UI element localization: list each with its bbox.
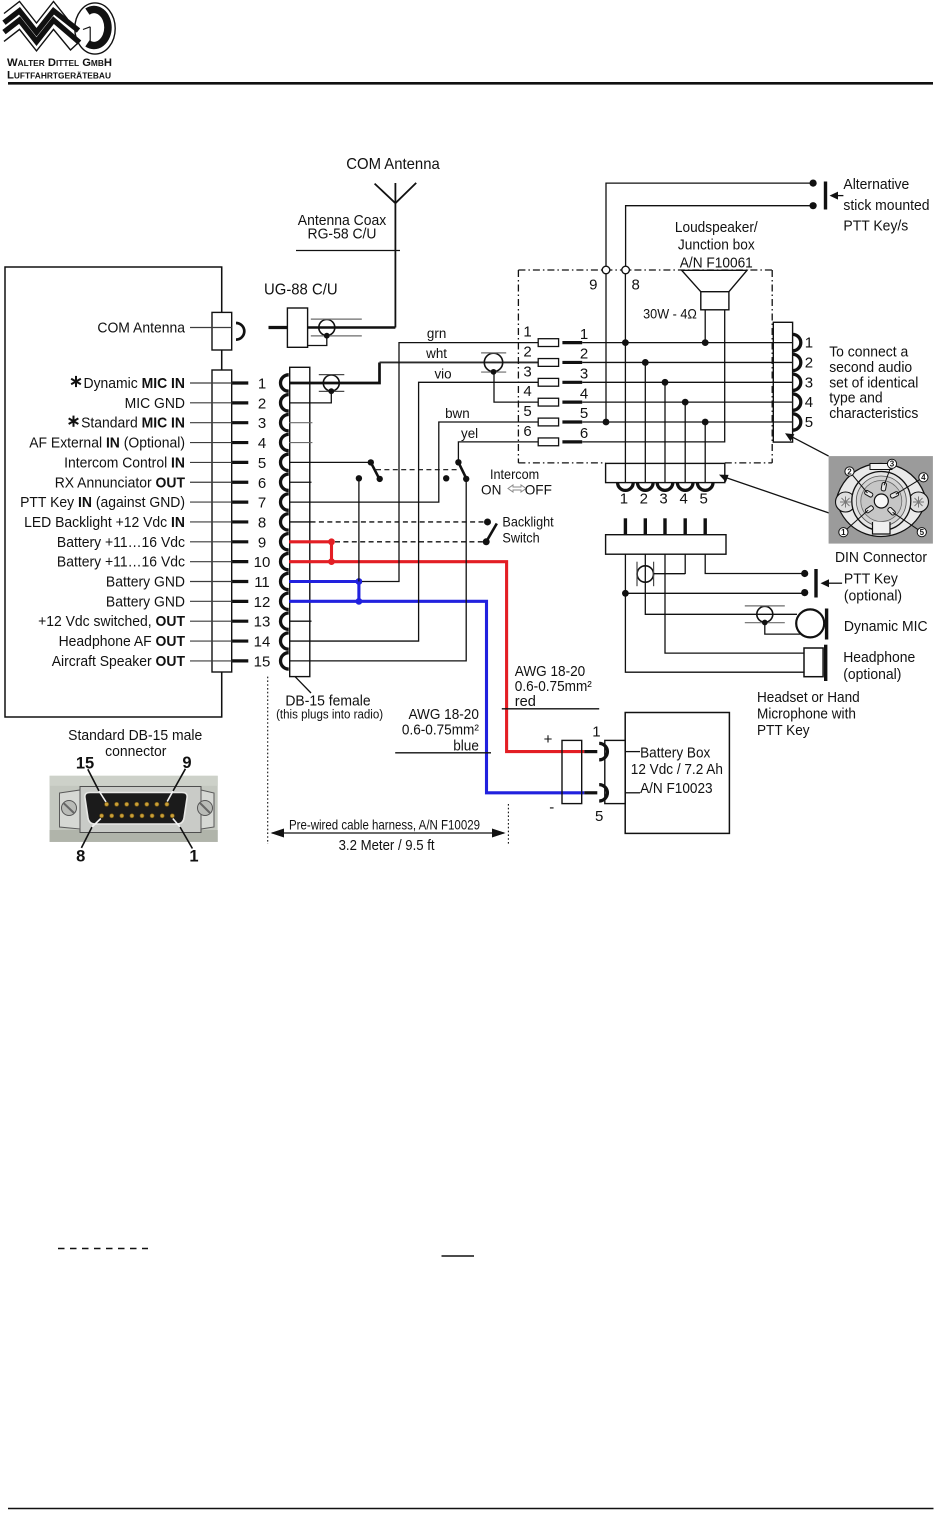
junction box left edge: [517, 270, 519, 463]
pin 2 stub (radio): [232, 401, 248, 404]
wire pin12 blue to battery -: [289, 601, 584, 792]
intercom switch A contact top: [368, 459, 374, 465]
bottom connector contact 4: [677, 483, 693, 491]
wire mic plug shield: [765, 623, 800, 635]
svg-text:4: 4: [580, 385, 588, 402]
svg-text:Alternative: Alternative: [843, 176, 909, 193]
pin 9 stub (radio): [232, 540, 248, 543]
svg-text:Backlight: Backlight: [502, 514, 553, 529]
svg-text:12 Vdc / 7.2 Ah: 12 Vdc / 7.2 Ah: [631, 762, 723, 778]
svg-text:vio: vio: [434, 367, 451, 382]
svg-text:4: 4: [258, 435, 266, 452]
wire pin8 solid stub: [289, 521, 311, 523]
bottom connector contact 5: [697, 483, 713, 491]
svg-text:30W - 4Ω: 30W - 4Ω: [643, 307, 697, 322]
svg-text:Luftfahrtgerätebau: Luftfahrtgerätebau: [7, 70, 111, 82]
wire UG-88 through to antenna: [308, 326, 396, 328]
svg-text:8: 8: [258, 514, 266, 531]
pin 10 stub (radio): [232, 560, 248, 563]
stick PTT key bar: [824, 182, 827, 210]
backlight switch contact bottom: [483, 538, 490, 545]
pointer DIN to second audio: [789, 435, 829, 456]
loudspeaker cone: [682, 270, 747, 291]
second audio contact 3: [793, 374, 801, 390]
bottom connector contact 1: [618, 483, 634, 491]
svg-text:UG-88 C/U: UG-88 C/U: [264, 282, 338, 299]
svg-text:+: +: [544, 731, 553, 748]
svg-text:1: 1: [523, 324, 531, 341]
headset plug pin 4: [684, 518, 687, 534]
headset jack symbol on wht wire: [481, 353, 506, 375]
svg-text:1: 1: [841, 528, 846, 537]
svg-text:6: 6: [580, 425, 588, 442]
wire pin9 red: [289, 540, 332, 543]
wire radio connector to box bottom: [221, 672, 223, 717]
junction box bottom connector body: [606, 463, 725, 482]
svg-text:+12 Vdc switched, OUT: +12 Vdc switched, OUT: [38, 613, 185, 630]
battery contact 1: [599, 743, 607, 759]
wire row1 across junction box: [582, 342, 792, 344]
wire pin 13 label leader: [190, 620, 232, 622]
headphone body: [804, 648, 823, 677]
svg-text:-: -: [549, 799, 554, 816]
DB-15 female contact 14: [280, 633, 288, 649]
svg-text:RX Annunciator OUT: RX Annunciator OUT: [55, 474, 185, 491]
junction dot blue pin11: [356, 578, 363, 585]
harness arrowhead left: [271, 829, 285, 838]
terminal 1 body: [538, 339, 558, 347]
wire wht to terminal 2: [380, 361, 539, 363]
stick PTT arrow: [837, 195, 843, 197]
logo Walter Dittel WD mark: [4, 2, 115, 55]
wire row5 across junction box: [582, 421, 792, 423]
DB-15 female contact 1: [280, 375, 288, 391]
intercom switch B lever dot: [463, 476, 469, 482]
antenna arm right: [395, 183, 416, 203]
intercom switch B contact left: [443, 475, 449, 481]
wire row3 down to connector pin3: [664, 382, 666, 482]
DB-15 female contact 13: [280, 613, 288, 629]
svg-text:Battery Box: Battery Box: [640, 746, 711, 762]
radio DB-15 shell: [212, 370, 232, 672]
wire pin5 to intercom switch: [289, 461, 371, 463]
svg-text:grn: grn: [427, 326, 446, 341]
harness dimension line: [272, 832, 504, 834]
svg-text:Battery GND: Battery GND: [106, 593, 185, 610]
DB-15 female contact 7: [281, 494, 289, 510]
intercom switch A lever: [371, 462, 379, 477]
svg-text:MIC GND: MIC GND: [125, 395, 186, 412]
wire loudspeaker left terminal: [704, 310, 706, 343]
svg-text:9: 9: [182, 754, 191, 772]
DB-15 female contact 4: [281, 434, 289, 450]
pin 14 stub (radio): [232, 639, 248, 642]
junction dot row4: [682, 399, 689, 406]
radio COM jack body: [212, 312, 232, 350]
terminal 6 body: [538, 438, 558, 446]
intercom switch A contact left: [356, 475, 362, 481]
battery plug body: [562, 740, 582, 803]
svg-text:COM Antenna: COM Antenna: [97, 319, 185, 336]
svg-text:ON: ON: [481, 482, 501, 497]
svg-text:3.2 Meter / 9.5 ft: 3.2 Meter / 9.5 ft: [339, 838, 435, 854]
svg-text:3: 3: [890, 460, 895, 469]
wire plug pin4 down: [684, 554, 686, 574]
wire pin 15 label leader: [190, 660, 232, 662]
wire COM Antenna label to jack: [190, 327, 232, 329]
pin 4 stub (radio): [232, 441, 248, 444]
wire plug pin1 to headphone lower: [625, 593, 804, 672]
harness dotted extent left: [267, 677, 269, 844]
DB-15 female contact 2: [281, 395, 289, 411]
second audio connector body: [773, 322, 792, 442]
terminal 5 body: [538, 418, 558, 426]
svg-text:0.6-0.75mm²: 0.6-0.75mm²: [515, 679, 592, 695]
wire intercom A to battery GND: [358, 478, 360, 581]
wire pin 12 label leader: [190, 600, 232, 602]
svg-text:characteristics: characteristics: [829, 405, 918, 422]
wire COM jack to DB15 shell: [221, 350, 223, 370]
svg-text:3: 3: [523, 363, 531, 380]
label pin 3 Standard MIC IN: [69, 416, 79, 427]
svg-text:10: 10: [254, 554, 271, 571]
svg-text:stick mounted: stick mounted: [843, 197, 929, 214]
junction dot plug pin1: [622, 590, 629, 597]
svg-text:3: 3: [258, 415, 266, 432]
junction box right edge: [771, 270, 773, 463]
svg-text:1: 1: [258, 376, 266, 393]
wire UG-88 shield tap: [308, 336, 327, 346]
pin 6 stub (radio): [232, 481, 248, 484]
svg-text:LED Backlight +12 Vdc IN: LED Backlight +12 Vdc IN: [24, 514, 185, 531]
pin13 stub wire: [289, 620, 312, 622]
DB-15 female contact 9: [280, 534, 288, 550]
wire pin 11 label leader: [190, 581, 232, 583]
svg-text:1: 1: [592, 724, 600, 741]
wire pin 5 label leader: [190, 461, 232, 463]
junction dot red pin10: [328, 558, 335, 565]
battery box: [625, 713, 729, 834]
svg-text:(optional): (optional): [844, 587, 902, 604]
pin4 stub wire: [289, 442, 312, 444]
svg-text:4: 4: [523, 383, 531, 400]
svg-text:1: 1: [189, 847, 198, 865]
intercom mechanical link dashed: [376, 469, 459, 471]
battery contact 5: [599, 785, 607, 801]
pin 11 stub (radio): [232, 580, 248, 583]
junction dot red pin9: [328, 538, 335, 545]
terminal 3 pin stub: [562, 381, 582, 384]
junction dot row5 x9: [603, 419, 610, 426]
terminal 2 body: [538, 359, 558, 367]
svg-text:AWG 18-20: AWG 18-20: [515, 664, 585, 680]
svg-text:8: 8: [632, 277, 640, 294]
svg-text:wht: wht: [425, 346, 447, 361]
bottom connector contact 3: [657, 483, 673, 491]
junction dot blue pin12: [356, 598, 363, 605]
svg-text:Walter Dittel GmbH: Walter Dittel GmbH: [7, 57, 112, 69]
svg-text:DIN Connector: DIN Connector: [835, 550, 927, 566]
svg-text:9: 9: [258, 534, 266, 551]
dynamic mic bar: [825, 609, 828, 640]
DB-15 female contact 11: [280, 573, 288, 589]
svg-text:PTT Key: PTT Key: [844, 571, 898, 588]
second audio contact 5: [793, 414, 801, 430]
pin 5 stub (radio): [232, 461, 248, 464]
svg-text:OFF: OFF: [525, 482, 552, 497]
battery blue stub: [584, 791, 597, 794]
junction box bottom edge left: [518, 462, 605, 464]
DB-15 female contact 15: [281, 653, 289, 669]
battery red stub: [584, 750, 597, 753]
wire pin11 blue: [289, 580, 359, 583]
dynamic mic circle: [796, 609, 824, 637]
svg-text:(optional): (optional): [843, 666, 901, 683]
svg-text:6: 6: [258, 475, 266, 492]
PTT key contact dot upper: [801, 570, 808, 577]
second audio contact 1: [793, 334, 801, 350]
wire pin 7 label leader: [190, 501, 232, 503]
wire pin 3 label leader: [190, 422, 232, 424]
svg-text:Headphone AF OUT: Headphone AF OUT: [59, 633, 185, 650]
svg-text:A/N F10023: A/N F10023: [640, 781, 713, 797]
svg-text:7: 7: [258, 495, 266, 512]
mic plug symbol: [745, 606, 785, 625]
PTT key bar: [814, 569, 817, 598]
svg-text:5: 5: [700, 491, 708, 508]
terminal 4 pin stub: [562, 401, 582, 404]
junction box bottom edge right: [725, 462, 772, 464]
svg-text:1: 1: [580, 326, 588, 343]
AWG red underline: [502, 708, 599, 710]
svg-text:2: 2: [580, 346, 588, 363]
DB-15 female contact 3: [281, 415, 289, 431]
wire row4 down to connector pin4: [684, 402, 686, 482]
wire plug pin2 to dynamic mic: [645, 554, 797, 614]
svg-text:RG-58 C/U: RG-58 C/U: [308, 226, 377, 243]
svg-text:5: 5: [258, 455, 266, 472]
wire coax stub into UG-88: [269, 326, 288, 329]
svg-text:5: 5: [920, 528, 925, 537]
loudspeaker driver: [701, 292, 729, 310]
junction box entry circle 9: [602, 266, 610, 274]
svg-text:2: 2: [805, 354, 813, 371]
PTT key contact dot lower: [801, 589, 808, 596]
wire pin 14 label leader: [190, 640, 232, 642]
svg-text:Switch: Switch: [502, 530, 539, 545]
wire pin 4 label leader: [190, 442, 232, 444]
wire row2 down to connector pin2: [644, 362, 646, 482]
wire stick PTT 8: [626, 206, 814, 267]
antenna mast: [394, 183, 396, 328]
mic jack symbol vertical: [637, 566, 653, 582]
svg-text:Dynamic MIC: Dynamic MIC: [844, 618, 928, 635]
pin 7 stub (radio): [232, 501, 248, 504]
terminal 4 body: [538, 398, 558, 406]
svg-text:4: 4: [805, 394, 813, 411]
header rule: [8, 82, 933, 85]
wire pin10 red to battery +: [289, 562, 584, 752]
svg-text:15: 15: [76, 755, 94, 773]
wire pin 9 label leader: [190, 541, 232, 543]
wire pin 1 label leader: [190, 382, 232, 384]
svg-text:5: 5: [580, 405, 588, 422]
PTT key arrow: [828, 582, 842, 584]
junction box top edge: [518, 269, 772, 271]
stick PTT contact dot upper: [810, 180, 817, 187]
harness dotted extent right: [507, 804, 509, 845]
svg-text:2: 2: [258, 395, 266, 412]
DB-15 female shell: [290, 367, 310, 676]
AWG blue underline: [395, 752, 491, 754]
footer rule: [8, 1508, 934, 1510]
svg-text:Pre-wired cable harness, A/N F: Pre-wired cable harness, A/N F10029: [289, 818, 480, 833]
leader line under RG-58 label: [296, 250, 400, 252]
svg-text:Headphone: Headphone: [843, 649, 915, 666]
leader to DB-15 female label: [295, 677, 311, 693]
label pin 1 Dynamic MIC IN: [71, 376, 81, 387]
pin 12 stub (radio): [232, 600, 248, 603]
wire plug pin5 to PTT upper: [705, 554, 805, 573]
svg-text:1: 1: [620, 491, 628, 508]
wire yel riser to switch B: [458, 442, 538, 462]
svg-text:3: 3: [659, 491, 667, 508]
headset plug pin 2: [644, 518, 647, 534]
legend dashed sample: [58, 1248, 148, 1250]
wire pin 6 label leader: [190, 481, 232, 483]
wire pin14 to vio riser to row3: [289, 382, 538, 641]
svg-text:6: 6: [523, 423, 531, 440]
svg-text:A/N F10061: A/N F10061: [680, 255, 753, 271]
pin 15 stub (radio): [232, 659, 248, 662]
wire pin 8 label leader: [190, 521, 232, 523]
svg-text:PTT Key: PTT Key: [757, 723, 810, 739]
wire mic jack shield to plug pin4: [654, 573, 686, 575]
intercom switch B lever: [458, 462, 466, 478]
junction dot row1 speaker: [702, 339, 709, 346]
pin 8 stub (radio): [232, 520, 248, 523]
svg-text:Battery +11…16 Vdc: Battery +11…16 Vdc: [57, 554, 186, 571]
backlight switch lever: [486, 524, 497, 542]
wire row6 to loudspeaker: [582, 310, 725, 442]
wire 8 down to connector pin1: [624, 274, 626, 483]
UG-88 coax jack symbol: [311, 319, 362, 339]
terminal 5 pin stub: [562, 420, 582, 423]
wire plug pin1 to PTT lower: [625, 554, 804, 593]
svg-text:1: 1: [805, 335, 813, 352]
intercom switch B contact top: [455, 459, 461, 465]
intercom switch A lever dot: [377, 476, 383, 482]
wire red tie 9-10: [330, 542, 333, 562]
DB-15 female contact 5: [281, 454, 289, 470]
wire 9 down to row5: [605, 274, 607, 422]
wire pin7 to bwn to row5: [289, 422, 538, 502]
DIN connector illustration: [829, 456, 933, 543]
svg-text:Microphone with: Microphone with: [757, 706, 856, 722]
svg-text:5: 5: [805, 414, 813, 431]
svg-text:Dynamic MIC IN: Dynamic MIC IN: [84, 375, 186, 392]
headset plug body: [606, 535, 726, 555]
legend solid sample: [442, 1255, 475, 1257]
pin 3 stub (radio): [232, 421, 248, 424]
wire row2 across junction box: [582, 361, 792, 363]
terminal 1 pin stub: [562, 341, 582, 344]
wire pin15 to intercom switch: [289, 479, 466, 661]
backlight switch contact top: [484, 518, 491, 525]
svg-text:AF External IN (Optional): AF External IN (Optional): [29, 435, 185, 452]
second audio contact 4: [793, 394, 801, 410]
radio outline box: [5, 267, 222, 717]
svg-text:2: 2: [640, 491, 648, 508]
junction box entry circle 8: [622, 266, 630, 274]
svg-text:Aircraft Speaker OUT: Aircraft Speaker OUT: [52, 653, 185, 670]
wire pin1 Dynamic MIC bold: [289, 362, 380, 383]
svg-text:12: 12: [254, 594, 271, 611]
svg-text:PTT Key IN (against GND): PTT Key IN (against GND): [20, 494, 185, 511]
wire pin8 dashed to backlight switch: [311, 521, 488, 523]
wire radio top edge to COM jack: [221, 267, 223, 312]
terminal 2 pin stub: [562, 361, 582, 364]
svg-text:yel: yel: [461, 426, 478, 441]
battery side block: [605, 740, 625, 803]
svg-text:Standard MIC IN: Standard MIC IN: [81, 415, 185, 432]
svg-text:3: 3: [580, 366, 588, 383]
svg-text:bwn: bwn: [445, 406, 470, 421]
svg-text:2: 2: [523, 343, 531, 360]
junction dot row2: [642, 359, 649, 366]
wire row3 across junction box: [582, 381, 792, 383]
svg-text:0.6-0.75mm²: 0.6-0.75mm²: [402, 722, 479, 738]
svg-text:14: 14: [254, 634, 271, 651]
svg-text:Battery GND: Battery GND: [106, 574, 185, 591]
wire wht jack shield to row4: [494, 371, 538, 403]
wire pin 10 label leader: [190, 561, 232, 563]
second audio contact 2: [793, 354, 801, 370]
svg-text:13: 13: [254, 614, 271, 631]
svg-text:Standard DB-15 male: Standard DB-15 male: [68, 727, 202, 744]
svg-text:3: 3: [805, 374, 813, 391]
svg-text:11: 11: [254, 574, 270, 591]
svg-text:connector: connector: [105, 743, 166, 760]
pin6 stub wire: [289, 481, 312, 483]
wire mic jack shield to pin2: [289, 391, 331, 403]
harness arrowhead right: [492, 829, 506, 838]
junction dot row5 speaker: [702, 419, 709, 426]
svg-text:Intercom: Intercom: [490, 467, 539, 482]
pin 13 stub (radio): [232, 620, 248, 623]
wire pin9 dashed to backlight switch: [335, 541, 486, 543]
radio COM jack female contact: [236, 323, 244, 340]
svg-text:Loudspeaker/: Loudspeaker/: [675, 220, 759, 236]
svg-text:Battery +11…16 Vdc: Battery +11…16 Vdc: [57, 534, 186, 551]
wire row5 down to connector pin5: [704, 422, 706, 483]
headphone bar: [824, 645, 827, 681]
wire row4 across junction box: [582, 401, 792, 403]
headset plug pin 1: [624, 518, 627, 534]
wire plug pin3 to headphone upper: [665, 554, 804, 653]
wire battery terminal 1 inside: [625, 751, 640, 753]
wire pin11 to grn riser to row1: [362, 343, 538, 582]
svg-text:blue: blue: [453, 738, 479, 754]
wire battery terminal 5 inside: [625, 792, 640, 794]
svg-text:Intercom Control IN: Intercom Control IN: [64, 454, 185, 471]
svg-text:red: red: [515, 694, 536, 710]
DB-15 female contact 6: [280, 474, 288, 490]
svg-text:4: 4: [680, 491, 688, 508]
DB-15 female contact 8: [280, 514, 288, 530]
pin3 stub wire: [289, 422, 312, 424]
svg-text:PTT Key/s: PTT Key/s: [843, 218, 908, 235]
